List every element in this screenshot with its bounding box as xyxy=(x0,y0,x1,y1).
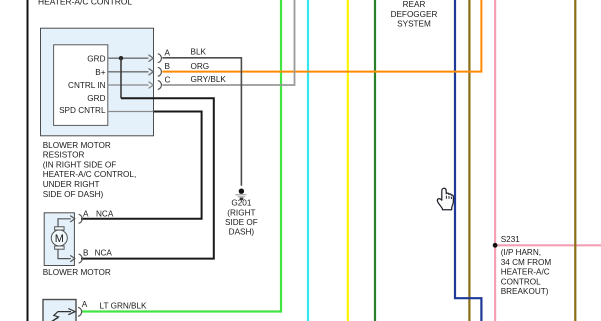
motor brush bottom xyxy=(55,246,65,249)
switch arrow symbol xyxy=(53,312,71,321)
connector pin A arc xyxy=(158,54,162,63)
motor pin B arc xyxy=(79,254,83,263)
wire BLK (to ground G201) xyxy=(162,58,241,186)
wire (yellow vertical) xyxy=(347,0,349,321)
wire GRD to pin A (gray, with arrow) xyxy=(108,57,149,59)
svg-text:SIDE OF DASH): SIDE OF DASH) xyxy=(43,190,104,199)
left frame border xyxy=(27,0,29,321)
wire (dark yellow vertical) xyxy=(468,0,470,321)
wire (dark blue vertical with jog) xyxy=(455,0,481,321)
svg-text:SIDE OF: SIDE OF xyxy=(225,218,258,227)
motor M symbol xyxy=(51,230,67,246)
svg-text:LT GRN/BLK: LT GRN/BLK xyxy=(100,301,148,310)
svg-text:GRD: GRD xyxy=(87,54,105,63)
svg-text:NCA: NCA xyxy=(95,249,113,258)
mouse cursor (hand pointer) xyxy=(437,188,453,210)
svg-text:HEATER-A/C CONTROL,: HEATER-A/C CONTROL, xyxy=(43,170,137,179)
svg-text:34 CM FROM: 34 CM FROM xyxy=(501,258,552,267)
svg-text:BLK: BLK xyxy=(191,48,207,57)
svg-text:GRD: GRD xyxy=(87,94,105,103)
wire branch from junction dot down to GRD row4 xyxy=(120,58,122,98)
svg-text:A: A xyxy=(165,48,171,57)
svg-text:S231: S231 xyxy=(501,235,521,244)
svg-text:A: A xyxy=(83,209,89,218)
blower motor resistor inner box xyxy=(54,45,108,126)
wire ORG xyxy=(162,0,481,72)
svg-text:B: B xyxy=(165,62,171,71)
wire B+ to pin B (gray, with arrow) xyxy=(108,71,149,73)
switch pin A arc xyxy=(78,307,82,316)
wire (dark green vertical) xyxy=(374,0,376,321)
svg-text:G201: G201 xyxy=(231,199,251,208)
svg-text:(IN RIGHT SIDE OF: (IN RIGHT SIDE OF xyxy=(43,160,117,169)
wire (pink branch right from S231) xyxy=(495,244,601,246)
svg-text:(RIGHT: (RIGHT xyxy=(227,208,255,217)
connector pin C arc xyxy=(158,81,162,90)
motor wire to pin B xyxy=(58,249,71,258)
svg-text:DEFOGGER: DEFOGGER xyxy=(391,10,438,19)
connector pin B arc xyxy=(158,67,162,76)
wire SPD CNTRL inside box (gray) xyxy=(108,111,154,113)
svg-text:BLOWER MOTOR: BLOWER MOTOR xyxy=(43,141,111,150)
svg-text:B+: B+ xyxy=(95,68,105,77)
svg-text:REAR: REAR xyxy=(403,0,426,9)
motor pin A arc xyxy=(79,214,83,223)
splice S231 junction dot xyxy=(493,243,498,248)
motor wire to pin A xyxy=(58,219,71,227)
svg-text:DASH): DASH) xyxy=(229,228,255,237)
svg-text:SPD CNTRL: SPD CNTRL xyxy=(59,106,106,115)
blower motor resistor outer box xyxy=(41,28,154,136)
svg-text:UNDER RIGHT: UNDER RIGHT xyxy=(43,180,100,189)
svg-text:A: A xyxy=(82,300,88,309)
wire SPD CNTRL to blower motor pin A (black) xyxy=(81,112,202,219)
junction dot on GRD wire xyxy=(119,56,123,60)
wire GRD loop to blower motor pin B (black) xyxy=(81,98,214,258)
svg-text:HEATER-A/C: HEATER-A/C xyxy=(501,268,550,277)
svg-text:(I/P HARN,: (I/P HARN, xyxy=(501,248,541,257)
svg-text:C: C xyxy=(165,75,171,84)
wire GRY/BLK xyxy=(162,0,294,85)
svg-text:NCA: NCA xyxy=(96,209,114,218)
wire LT GRN/BLK xyxy=(82,0,282,312)
wire (far right dark yellow vertical) xyxy=(574,0,576,321)
svg-text:CONTROL: CONTROL xyxy=(501,277,541,286)
wire (pink vertical) xyxy=(494,0,496,321)
A/C-heater control switch box (bottom, clipped) xyxy=(43,300,76,321)
motor brush top xyxy=(55,227,65,230)
svg-text:BREAKOUT): BREAKOUT) xyxy=(501,287,549,296)
svg-text:CNTRL IN: CNTRL IN xyxy=(68,81,106,90)
svg-text:SYSTEM: SYSTEM xyxy=(397,20,431,29)
svg-text:HEATER-A/C CONTROL: HEATER-A/C CONTROL xyxy=(38,0,132,7)
wire (cyan vertical) xyxy=(307,0,309,321)
svg-text:M: M xyxy=(55,233,64,245)
svg-text:BLOWER MOTOR: BLOWER MOTOR xyxy=(43,268,111,277)
svg-text:RESISTOR: RESISTOR xyxy=(43,151,85,160)
wire CNTRL IN to pin C (gray, with arrow) xyxy=(108,84,149,86)
blower motor box xyxy=(44,213,74,266)
svg-text:GRY/BLK: GRY/BLK xyxy=(191,75,227,84)
svg-text:B: B xyxy=(83,249,89,258)
svg-text:ORG: ORG xyxy=(191,62,210,71)
ground G201 symbol xyxy=(239,189,244,194)
